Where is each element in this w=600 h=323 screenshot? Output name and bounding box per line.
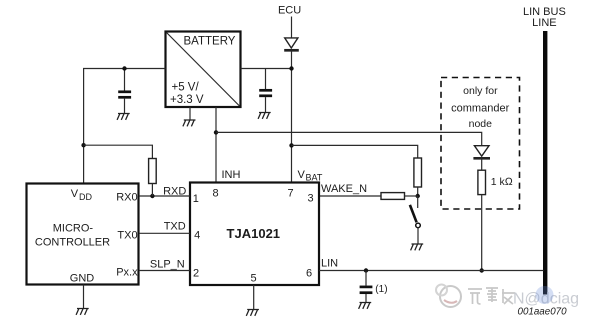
svg-text:8: 8: [212, 188, 218, 200]
wire ECU to diode D1: [291, 17, 293, 39]
dashed box: only for commander node: [441, 78, 520, 210]
svg-text:TXD: TXD: [164, 221, 186, 233]
svg-text:Px.x: Px.x: [116, 267, 138, 279]
junction rail / C1: [122, 66, 126, 70]
micro-controller U2: [27, 184, 139, 285]
switch S1: [410, 196, 420, 244]
svg-text:only for: only for: [463, 85, 498, 97]
svg-text:+3.3 V: +3.3 V: [170, 94, 204, 106]
svg-text:5: 5: [250, 273, 256, 285]
ground of C1: [117, 114, 130, 120]
junction rail / ECU diode line: [289, 66, 293, 70]
svg-text:RX0: RX0: [116, 191, 137, 203]
battery B1: [166, 32, 241, 108]
wire micro GND to ground: [83, 285, 85, 309]
junction LIN / capacitor C3: [364, 268, 368, 272]
ground of switch S1: [411, 244, 424, 250]
svg-text:RXD: RXD: [163, 185, 186, 197]
svg-text:2: 2: [193, 267, 199, 279]
resistor R3 (WAKE_N series): [381, 193, 405, 200]
svg-text:LIN: LIN: [321, 258, 338, 270]
junction RXD / pull-up R1: [150, 194, 154, 198]
ground of C2: [258, 113, 271, 119]
junction VBAT / wake pull-up branch: [289, 143, 293, 147]
wire D2 to resistor R4: [481, 158, 483, 170]
svg-text:V: V: [71, 188, 79, 200]
svg-text:commander: commander: [451, 102, 509, 114]
svg-text:TX0: TX0: [117, 230, 137, 242]
resistor R2 (WAKE_N pull-up): [414, 158, 422, 187]
wire R2 to wake node: [417, 187, 419, 196]
svg-text:BATTERY: BATTERY: [184, 35, 236, 47]
svg-text:+5 V/: +5 V/: [172, 81, 200, 93]
svg-text:TJA1021: TJA1021: [227, 226, 280, 241]
wire battery to INH pin 8: [215, 107, 217, 183]
wire TXD (TX0 to pin 4): [139, 232, 190, 234]
capacitor C1: [118, 69, 131, 114]
svg-text:1: 1: [193, 193, 199, 205]
wire R4 to LIN line: [481, 195, 483, 271]
wire LIN BUS (thick bus line): [543, 31, 547, 295]
svg-text:INH: INH: [222, 169, 241, 181]
svg-text:node: node: [469, 118, 493, 130]
wire VBAT node to pull-up resistor R2: [292, 145, 418, 158]
wire RXD (RX0 to pin 1): [139, 195, 190, 197]
wire SLP_N (Px.x to pin 2): [139, 270, 190, 272]
label VBAT: [298, 169, 323, 183]
junction wake node: [416, 194, 420, 198]
junction LIN / commander branch: [480, 268, 484, 272]
watermark logo: [436, 285, 461, 308]
wire VDD branch to resistor R1: [84, 145, 153, 158]
svg-text:3: 3: [307, 192, 313, 204]
svg-text:MICRO-: MICRO-: [53, 223, 94, 235]
junction INH / commander branch: [214, 130, 218, 134]
svg-text:(1): (1): [375, 284, 387, 295]
capacitor C3: [360, 271, 388, 303]
svg-text:SLP_N: SLP_N: [150, 258, 185, 270]
ground of micro-controller: [76, 309, 89, 315]
svg-text:6: 6: [306, 267, 312, 279]
watermark text: [468, 288, 515, 304]
svg-text:LINE: LINE: [532, 17, 556, 29]
wire TJA pin 5 to ground: [253, 285, 255, 309]
resistor R4 (1 kOhm): [478, 170, 513, 194]
svg-text:GND: GND: [70, 273, 95, 285]
wire R1 to RXD node: [151, 184, 153, 197]
wire battery left pin to VDD rail: [84, 69, 166, 184]
svg-text:DD: DD: [79, 192, 92, 202]
junction VDD / R1 branch: [81, 143, 85, 147]
diode D1: [284, 38, 299, 50]
wire pin 3 WAKE_N to resistor R3: [319, 195, 381, 197]
wire battery right pin to VBAT rail: [241, 68, 292, 70]
svg-text:V: V: [298, 169, 306, 181]
capacitor C2: [259, 69, 272, 113]
svg-text:BAT: BAT: [306, 173, 323, 183]
wire LIN (pin 6 to bus): [319, 270, 544, 272]
ground of battery: [183, 120, 196, 126]
svg-text:ECU: ECU: [278, 5, 301, 17]
diode D2 (commander): [473, 146, 490, 159]
svg-text:1 kΩ: 1 kΩ: [491, 176, 513, 188]
svg-text:7: 7: [288, 188, 294, 200]
svg-text:001aae070: 001aae070: [518, 306, 568, 317]
wire battery ground pin: [189, 107, 191, 120]
wire diode D1 to VBAT pin 7: [291, 50, 293, 182]
svg-text:CONTROLLER: CONTROLLER: [35, 237, 110, 249]
ground of C3: [359, 303, 372, 309]
wire R3 to wake node: [405, 195, 418, 197]
svg-text:WAKE_N: WAKE_N: [321, 183, 367, 195]
transceiver U1 TJA1021: [190, 183, 319, 286]
resistor R1 (RXD pull-up): [149, 159, 157, 184]
wire INH node to commander diode D2: [216, 132, 482, 146]
svg-text:4: 4: [194, 229, 200, 241]
ground of pin 5: [246, 310, 259, 316]
